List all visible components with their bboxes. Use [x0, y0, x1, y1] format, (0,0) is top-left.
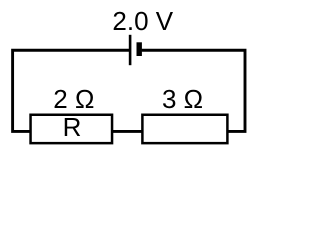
battery V1 short plate (-) — [137, 42, 142, 56]
wire right: from battery - plate to right side, down, stub to 3-ohm resistor — [142, 50, 245, 131]
wire middle: stub between the two resistors — [112, 130, 143, 133]
svg-text:3 Ω: 3 Ω — [162, 84, 203, 114]
svg-text:R: R — [63, 112, 82, 142]
resistor R box — [31, 115, 113, 143]
svg-text:2.0 V: 2.0 V — [112, 6, 173, 36]
resistor R2 box (3 ohm) — [142, 115, 227, 143]
wire left: top wire from battery + plate to left side, down, stub to resistor R — [13, 50, 131, 131]
svg-text:2 Ω: 2 Ω — [53, 84, 94, 114]
battery V1 long plate (+) — [129, 35, 132, 65]
